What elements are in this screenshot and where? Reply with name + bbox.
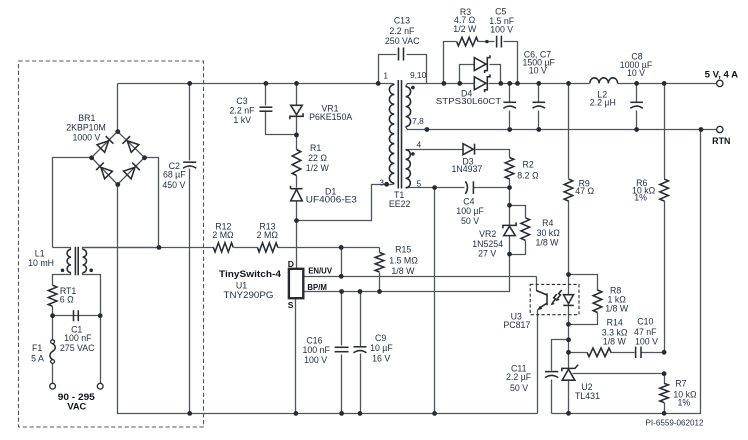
svg-text:4: 4 xyxy=(416,140,421,150)
svg-text:TL431: TL431 xyxy=(575,391,600,401)
svg-text:2.2 µF: 2.2 µF xyxy=(506,372,532,382)
svg-text:C5: C5 xyxy=(495,6,506,16)
svg-text:2 MΩ: 2 MΩ xyxy=(257,230,279,240)
svg-text:68 µF: 68 µF xyxy=(163,169,186,179)
svg-text:9,10: 9,10 xyxy=(410,70,427,80)
svg-text:3: 3 xyxy=(379,178,384,188)
svg-text:C13: C13 xyxy=(394,16,410,26)
svg-text:TinySwitch-4: TinySwitch-4 xyxy=(219,269,281,279)
svg-text:BR1: BR1 xyxy=(78,113,95,123)
svg-text:UF4006-E3: UF4006-E3 xyxy=(306,195,357,205)
svg-text:5: 5 xyxy=(416,178,421,188)
svg-text:R4: R4 xyxy=(542,218,553,228)
svg-text:100 V: 100 V xyxy=(304,355,327,365)
svg-text:R1: R1 xyxy=(310,143,321,153)
svg-text:PC817: PC817 xyxy=(503,320,530,330)
svg-text:1000 V: 1000 V xyxy=(72,133,100,143)
svg-text:VR2: VR2 xyxy=(479,229,496,239)
svg-text:1/8 W: 1/8 W xyxy=(536,237,560,247)
svg-text:50 V: 50 V xyxy=(461,216,479,226)
svg-text:1/8 W: 1/8 W xyxy=(603,337,627,347)
svg-text:C9: C9 xyxy=(375,333,386,343)
svg-text:2.2 µH: 2.2 µH xyxy=(590,98,616,108)
svg-text:RTN: RTN xyxy=(712,136,730,146)
svg-text:47 Ω: 47 Ω xyxy=(575,186,594,196)
svg-text:VAC: VAC xyxy=(67,401,86,411)
svg-text:R15: R15 xyxy=(395,245,411,255)
svg-text:2KBP10M: 2KBP10M xyxy=(66,123,106,133)
svg-text:TNY290PG: TNY290PG xyxy=(224,290,274,300)
svg-text:5 V, 4 A: 5 V, 4 A xyxy=(705,69,739,79)
svg-text:1/2 W: 1/2 W xyxy=(453,24,477,34)
svg-text:5 A: 5 A xyxy=(31,353,44,363)
svg-text:D: D xyxy=(288,259,294,269)
svg-text:EN/UV: EN/UV xyxy=(308,266,333,275)
svg-text:1.5 MΩ: 1.5 MΩ xyxy=(389,255,418,265)
svg-text:10 µF: 10 µF xyxy=(370,343,393,353)
svg-text:50 V: 50 V xyxy=(510,383,528,393)
svg-text:1%: 1% xyxy=(677,398,690,408)
svg-text:1 kV: 1 kV xyxy=(233,115,251,125)
svg-text:1/8 W: 1/8 W xyxy=(605,304,629,314)
svg-text:27 V: 27 V xyxy=(478,249,496,259)
svg-text:F1: F1 xyxy=(32,343,42,353)
svg-text:10 mH: 10 mH xyxy=(28,258,54,268)
svg-text:100 nF: 100 nF xyxy=(303,345,331,355)
svg-text:100 nF: 100 nF xyxy=(64,333,92,343)
svg-text:S: S xyxy=(288,300,294,310)
svg-text:EE22: EE22 xyxy=(389,199,411,209)
svg-text:1: 1 xyxy=(383,71,388,81)
svg-text:7,8: 7,8 xyxy=(412,116,424,126)
svg-text:100 V: 100 V xyxy=(635,336,658,346)
svg-text:6 Ω: 6 Ω xyxy=(60,294,74,304)
svg-text:100 V: 100 V xyxy=(490,25,513,35)
svg-text:22 Ω: 22 Ω xyxy=(308,153,327,163)
svg-text:C10: C10 xyxy=(637,317,653,327)
svg-text:C4: C4 xyxy=(463,196,474,206)
svg-text:2.2 nF: 2.2 nF xyxy=(389,26,415,36)
svg-text:250 VAC: 250 VAC xyxy=(385,36,420,46)
svg-text:10 V: 10 V xyxy=(529,65,547,75)
svg-text:275 VAC: 275 VAC xyxy=(60,343,95,353)
svg-text:100 µF: 100 µF xyxy=(456,206,484,216)
svg-text:1N4937: 1N4937 xyxy=(451,164,482,174)
svg-text:C16: C16 xyxy=(306,335,322,345)
svg-text:P6KE150A: P6KE150A xyxy=(309,112,352,122)
svg-text:STPS30L60CT: STPS30L60CT xyxy=(436,96,502,106)
svg-text:C3: C3 xyxy=(236,96,247,106)
svg-text:1%: 1% xyxy=(634,192,647,202)
svg-text:16 V: 16 V xyxy=(372,353,390,363)
svg-text:PI-6559-062012: PI-6559-062012 xyxy=(646,419,704,428)
svg-text:R14: R14 xyxy=(607,318,623,328)
svg-text:1/8 W: 1/8 W xyxy=(391,266,415,276)
svg-text:1/2 W: 1/2 W xyxy=(306,163,330,173)
svg-text:10 V: 10 V xyxy=(627,68,645,78)
svg-text:BP/M: BP/M xyxy=(307,283,327,292)
svg-text:2 MΩ: 2 MΩ xyxy=(212,230,234,240)
svg-text:R2: R2 xyxy=(522,160,533,170)
svg-text:2.2 nF: 2.2 nF xyxy=(230,106,256,116)
svg-text:R7: R7 xyxy=(675,379,686,389)
svg-text:450 V: 450 V xyxy=(162,180,185,190)
svg-text:1N5254: 1N5254 xyxy=(472,239,503,249)
svg-text:8.2 Ω: 8.2 Ω xyxy=(517,170,539,180)
